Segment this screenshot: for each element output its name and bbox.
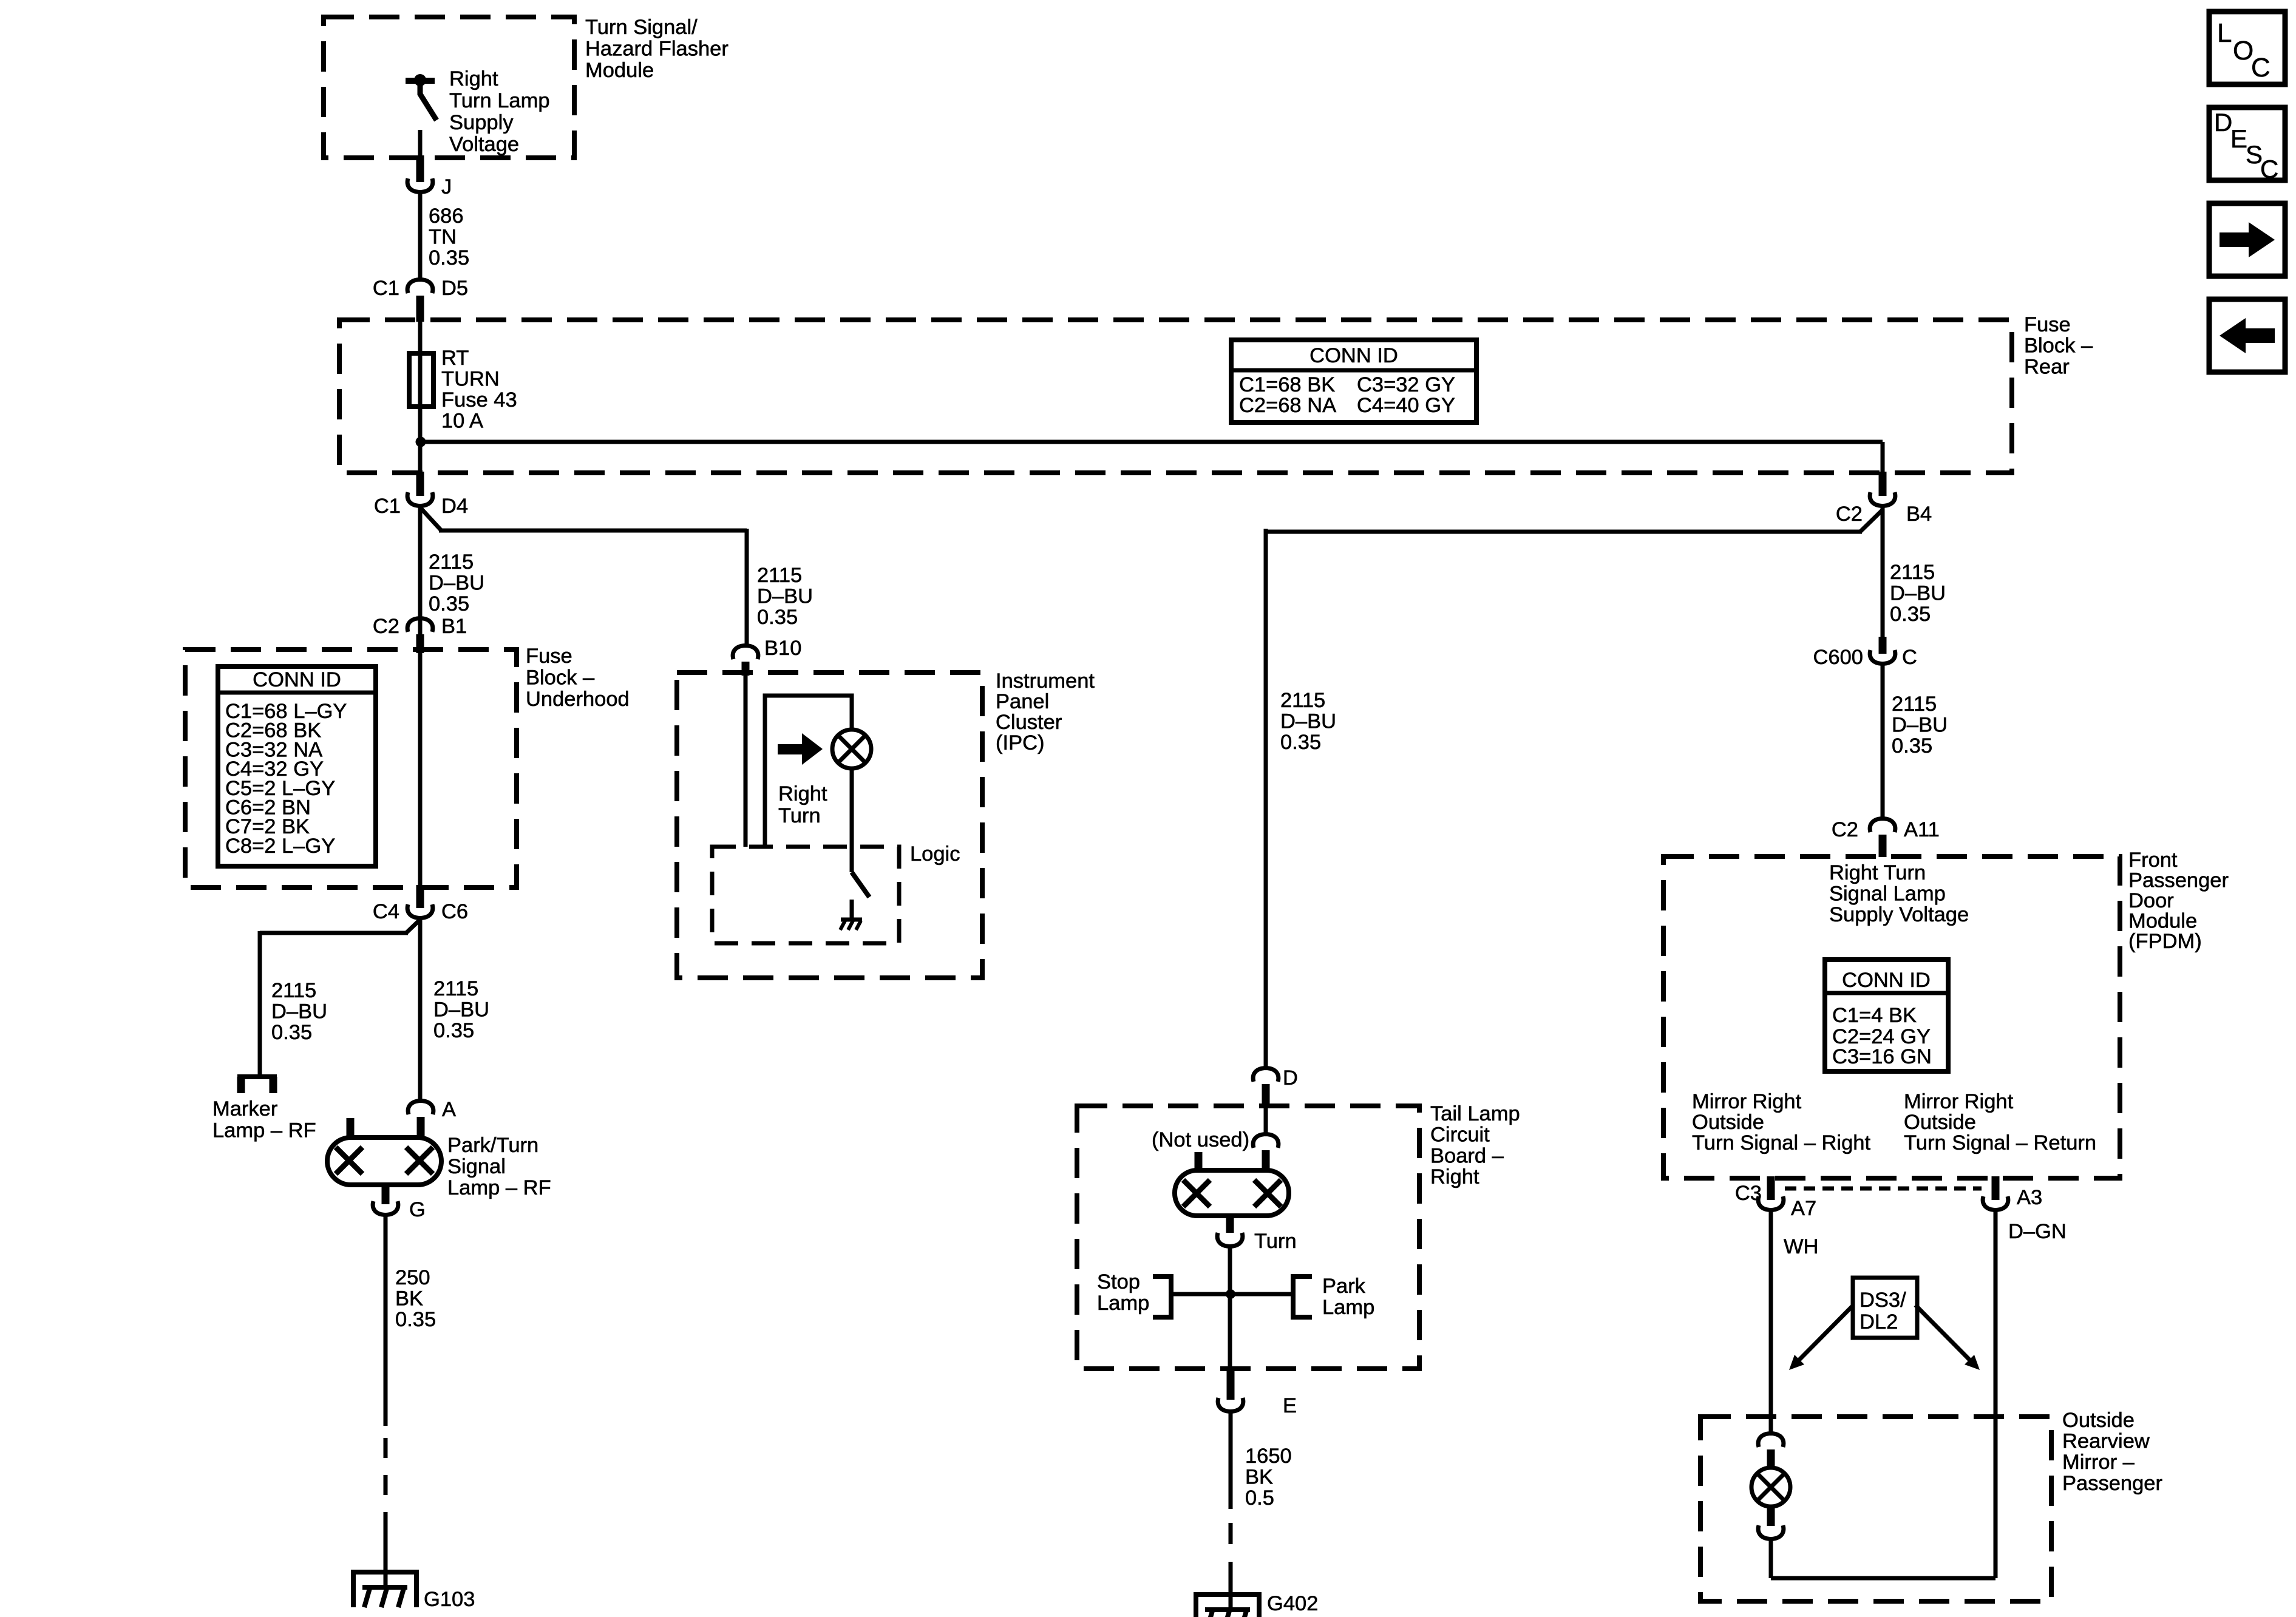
svg-text:C3: C3 (1735, 1182, 1762, 1205)
lamp Park/Turn Signal Lamp - RF (bulb housing) (327, 1137, 441, 1185)
connector tail bulb (cup) (1253, 1134, 1279, 1148)
switch Right Turn Lamp Supply Voltage (inside module) (406, 78, 435, 84)
svg-text:D–BU: D–BU (433, 998, 489, 1022)
lamp mirror turn signal (1751, 1468, 1790, 1507)
svg-text:Turn: Turn (778, 804, 821, 827)
svg-text:D–GN: D–GN (2008, 1220, 2067, 1243)
module Fuse Block - Rear (dashed box) (339, 320, 2012, 473)
connector C2/A11 (cup) (1870, 819, 1895, 833)
wire switch to pin J (418, 130, 423, 157)
lamp filament X left (1183, 1180, 1210, 1207)
svg-text:C3=16 GN: C3=16 GN (1832, 1045, 1932, 1068)
svg-text:J: J (441, 175, 452, 198)
connector pin D (stub) (1262, 1084, 1270, 1108)
terminal Park Lamp (bracket) (1293, 1276, 1312, 1317)
svg-text:WH: WH (1784, 1235, 1818, 1258)
wire junction down to C1/D4 (418, 442, 423, 472)
svg-text:Right Turn: Right Turn (1829, 861, 1926, 884)
svg-text:DS3/: DS3/ (1860, 1289, 1906, 1312)
svg-text:Hazard Flasher: Hazard Flasher (585, 38, 729, 61)
connector C2/B4 (cup) (1870, 492, 1895, 506)
lamp Right Turn indicator (832, 730, 871, 768)
svg-text:RT: RT (441, 347, 469, 370)
wire 1650 BK (to ground) (1229, 1583, 1233, 1611)
connector mirror inline bottom (cup) (1758, 1525, 1784, 1539)
svg-text:2115: 2115 (1892, 693, 1937, 716)
connector C600/C (stub) (1879, 637, 1887, 654)
connector pin G (stub = lamp bottom prong) (382, 1185, 390, 1204)
wire 250 BK (to ground) (384, 1532, 388, 1588)
svg-text:CONN ID: CONN ID (1842, 969, 1931, 992)
table CONN ID (Fuse Block - Rear) (1231, 340, 1476, 422)
wire D to bulb connector (1264, 1108, 1268, 1135)
svg-text:Outside: Outside (1692, 1111, 1764, 1134)
connector C2/A11 (stub) (1879, 835, 1887, 857)
svg-text:0.35: 0.35 (1890, 603, 1931, 626)
svg-text:0.35: 0.35 (429, 246, 469, 269)
svg-text:10 A: 10 A (441, 410, 483, 433)
svg-text:0.35: 0.35 (433, 1019, 474, 1042)
svg-text:Instrument: Instrument (996, 670, 1095, 693)
wire bus to right (to C2/B4) (420, 440, 1883, 444)
svg-text:Panel: Panel (996, 690, 1049, 713)
svg-text:C6: C6 (441, 900, 468, 923)
connector pin A (stub = lamp prong) (417, 1117, 425, 1137)
svg-text:C4=40 GY: C4=40 GY (1357, 394, 1455, 417)
svg-text:A: A (442, 1098, 456, 1121)
svg-text:Passenger: Passenger (2128, 869, 2229, 892)
wire 686 TN (J to C1/D5) (418, 192, 423, 280)
ground internal (IPC logic) (841, 918, 862, 922)
connector C1/D4 (stub) (416, 472, 424, 496)
svg-text:TURN: TURN (441, 368, 500, 391)
wire B4 branch diagonal (1860, 510, 1883, 532)
node junction (turn/stop/park) (1226, 1289, 1235, 1299)
lamp filament X right (406, 1147, 433, 1174)
svg-text:Right: Right (449, 67, 498, 90)
svg-text:Turn Signal/: Turn Signal/ (585, 16, 698, 39)
icon box LOC (2209, 12, 2285, 84)
svg-text:Supply: Supply (449, 111, 514, 134)
wire Turn to junction and board edge (1228, 1246, 1232, 1369)
svg-text:Board –: Board – (1430, 1144, 1504, 1167)
svg-text:Mirror Right: Mirror Right (1692, 1090, 1802, 1113)
svg-text:E: E (2230, 124, 2247, 153)
svg-text:Rearview: Rearview (2062, 1430, 2150, 1453)
svg-text:L: L (2217, 18, 2232, 48)
connector mirror inline top (stub) (1767, 1449, 1775, 1469)
svg-text:C2: C2 (1832, 818, 1858, 841)
svg-text:C1: C1 (373, 277, 399, 300)
svg-text:Stop: Stop (1097, 1270, 1140, 1293)
connector C4/C6 (stub) (416, 885, 424, 908)
svg-text:BK: BK (395, 1287, 423, 1310)
wire logic to indicator loop (765, 696, 852, 847)
wire 250 BK (dashed section) (384, 1438, 388, 1532)
svg-text:Mirror Right: Mirror Right (1904, 1090, 2014, 1113)
svg-text:C2: C2 (1836, 503, 1863, 526)
wire marker branch (horizontal) (260, 931, 408, 935)
wire B10 into logic (744, 676, 748, 847)
svg-text:Block –: Block – (2024, 334, 2093, 358)
svg-text:C2: C2 (373, 615, 399, 638)
svg-text:Right: Right (1430, 1165, 1479, 1188)
connector A3 (cup) (1983, 1196, 2008, 1210)
connector C3 boundary (dotted) (1785, 1187, 1982, 1191)
svg-text:BK: BK (1245, 1466, 1273, 1489)
svg-text:Passenger: Passenger (2062, 1472, 2162, 1495)
table CONN ID (Fuse Block - Underhood) (218, 666, 376, 866)
connector pin E (stub) (1227, 1369, 1235, 1400)
svg-text:Signal Lamp: Signal Lamp (1829, 883, 1946, 906)
terminal Stop Lamp (bracket) (1153, 1276, 1171, 1317)
module Turn Signal/Hazard Flasher Module (dashed box) (324, 17, 574, 158)
wire bus drop to tail lamp board (1264, 529, 1268, 1069)
connector C2/B1 (stub) (416, 634, 424, 653)
svg-text:686: 686 (429, 205, 464, 228)
wire branch D4 to IPC (diagonal) (420, 507, 441, 531)
svg-text:TN: TN (429, 226, 457, 249)
svg-text:Tail Lamp: Tail Lamp (1430, 1102, 1520, 1125)
wire D5 through fuse to junction (418, 320, 423, 442)
svg-text:A3: A3 (2017, 1186, 2042, 1209)
svg-text:D–BU: D–BU (1280, 710, 1336, 733)
connector C1/D4 (cup) (407, 492, 433, 506)
svg-text:B4: B4 (1906, 503, 1932, 526)
svg-text:(Not used): (Not used) (1152, 1128, 1249, 1151)
icon box DESC (2209, 107, 2285, 180)
svg-text:0.5: 0.5 (1245, 1486, 1274, 1510)
svg-text:Module: Module (2128, 910, 2197, 933)
svg-text:0.35: 0.35 (1892, 734, 1932, 758)
callout arrow to D-GN wire (1915, 1305, 1972, 1362)
module Outside Rearview Mirror - Passenger (dashed box) (1700, 1417, 2051, 1601)
lamp filament X right (1254, 1180, 1281, 1207)
svg-text:2115: 2115 (271, 979, 316, 1002)
svg-text:(IPC): (IPC) (996, 731, 1045, 754)
svg-text:D–BU: D–BU (1892, 714, 1948, 737)
wire C6 down to pin A (418, 918, 423, 1102)
icon box arrow right (2209, 203, 2285, 276)
connector Marker Lamp - RF (2-prong) (237, 1074, 277, 1079)
svg-text:C: C (1902, 646, 1917, 669)
svg-text:G103: G103 (424, 1588, 475, 1611)
svg-text:D–BU: D–BU (429, 572, 484, 595)
svg-text:D4: D4 (441, 495, 468, 518)
ground G103 (351, 1570, 419, 1575)
svg-text:Right: Right (778, 782, 827, 805)
wire mirror lamp return (bottom) (1771, 1576, 1995, 1581)
wire mirror lamp return (down) (1769, 1539, 1773, 1578)
connector pin D (cup) (1253, 1068, 1279, 1082)
svg-text:Turn: Turn (1254, 1230, 1297, 1253)
connector Turn (cup) (1217, 1233, 1243, 1247)
module Front Passenger Door Module (dashed box) (1663, 856, 2120, 1178)
svg-text:Voltage: Voltage (449, 133, 519, 156)
svg-text:G: G (409, 1198, 426, 1221)
svg-text:Turn Signal – Return: Turn Signal – Return (1904, 1131, 2096, 1154)
connector mirror inline top (cup) (1758, 1434, 1784, 1448)
connector pin A (cup) (408, 1101, 433, 1115)
svg-text:0.35: 0.35 (429, 592, 469, 615)
connector pin B10 (cup) (733, 646, 758, 660)
wire B4 branch horizontal (to tail lamp drop) (1266, 530, 1862, 534)
module Instrument Panel Cluster (dashed box) (677, 673, 982, 978)
svg-text:Rear: Rear (2024, 355, 2070, 378)
svg-text:C3=32 GY: C3=32 GY (1357, 373, 1455, 396)
svg-text:Lamp: Lamp (1322, 1296, 1374, 1319)
svg-text:2115: 2115 (757, 564, 802, 587)
svg-text:250: 250 (395, 1266, 430, 1289)
svg-text:Marker: Marker (212, 1097, 277, 1120)
wire switch to ground (850, 900, 854, 920)
svg-text:(FPDM): (FPDM) (2128, 930, 2202, 953)
connector pin E (cup) (1218, 1398, 1243, 1412)
wire branch D4 to IPC (horizontal) (439, 529, 747, 533)
svg-text:0.35: 0.35 (1280, 731, 1321, 754)
connector C3/A7 (stub) (1767, 1176, 1775, 1200)
connector C3/A7 (cup) (1758, 1196, 1784, 1210)
svg-text:Lamp: Lamp (1097, 1292, 1149, 1315)
svg-text:Fuse: Fuse (2024, 313, 2071, 336)
svg-text:Park/Turn: Park/Turn (447, 1134, 538, 1157)
lamp Park/Turn Signal Lamp - RF (left prong) (347, 1118, 355, 1139)
svg-text:Lamp – RF: Lamp – RF (447, 1176, 551, 1199)
svg-text:D–BU: D–BU (1890, 582, 1946, 605)
callout DS3/DL2 (box) (1853, 1278, 1917, 1338)
svg-text:Outside: Outside (2062, 1409, 2135, 1432)
wire D4 down to C2/B1 (418, 506, 423, 635)
svg-text:Cluster: Cluster (996, 711, 1062, 734)
svg-text:2115: 2115 (1280, 689, 1325, 712)
svg-text:Underhood: Underhood (526, 688, 630, 711)
svg-text:G402: G402 (1267, 1592, 1318, 1615)
svg-text:Block –: Block – (526, 666, 595, 690)
switch logic-driven (blade) (852, 872, 869, 897)
svg-text:Module: Module (585, 59, 654, 82)
connector C2/B4 (stub) (1879, 472, 1887, 496)
wire B4 down to C600 (1881, 506, 1885, 637)
svg-text:C8=2 L–GY: C8=2 L–GY (225, 835, 335, 858)
svg-text:B1: B1 (441, 615, 467, 638)
svg-text:E: E (1283, 1394, 1297, 1417)
svg-text:C: C (2251, 53, 2271, 83)
wire 250 BK (G down) (384, 1215, 388, 1426)
svg-text:Mirror –: Mirror – (2062, 1451, 2135, 1474)
icon box arrow left (2209, 299, 2285, 372)
svg-text:1650: 1650 (1245, 1445, 1292, 1468)
connector pin G (cup) (373, 1201, 398, 1215)
svg-text:Turn Signal – Right: Turn Signal – Right (1692, 1131, 1870, 1154)
fuse RT TURN Fuse 43 10A (409, 353, 433, 407)
svg-text:Door: Door (2128, 889, 2174, 912)
module Logic (dashed box) (712, 847, 899, 943)
wire D-GN (A3 down) (1994, 1210, 1998, 1578)
wire bus corner down to B4 (1881, 442, 1885, 472)
wire branch drop to B10 (745, 529, 749, 646)
lamp Tail/Stop (bulb housing) (1175, 1170, 1289, 1216)
svg-text:C1=4 BK: C1=4 BK (1832, 1004, 1917, 1027)
svg-text:Front: Front (2128, 849, 2178, 872)
svg-text:Circuit: Circuit (1430, 1124, 1490, 1147)
wire 1650 BK (E down) (1229, 1412, 1233, 1509)
wire WH (A7 down) (1769, 1210, 1773, 1434)
svg-text:Logic: Logic (910, 842, 960, 866)
svg-text:C4: C4 (373, 900, 399, 923)
connector tail bulb (stub = prong) (1262, 1150, 1270, 1170)
svg-text:D: D (2214, 108, 2232, 137)
svg-text:C: C (2260, 155, 2278, 183)
svg-text:Lamp – RF: Lamp – RF (212, 1119, 316, 1142)
svg-text:C1: C1 (374, 495, 401, 518)
connector A3 (stub) (1992, 1176, 2000, 1200)
svg-text:D–BU: D–BU (757, 585, 813, 608)
svg-text:D5: D5 (441, 277, 468, 300)
svg-text:Signal: Signal (447, 1155, 506, 1178)
svg-text:B10: B10 (764, 637, 801, 660)
callout arrow to WH wire (1797, 1305, 1853, 1362)
connector C1/D5 (cup) (407, 280, 433, 294)
wire C600 to A11 (1881, 663, 1885, 819)
svg-text:Fuse 43: Fuse 43 (441, 388, 517, 412)
svg-text:Fuse: Fuse (526, 645, 572, 668)
svg-text:D: D (1283, 1066, 1298, 1090)
svg-text:CONN ID: CONN ID (253, 668, 341, 691)
svg-text:2115: 2115 (433, 977, 478, 1000)
svg-text:0.35: 0.35 (271, 1021, 312, 1044)
node junction at fuse output (416, 437, 426, 447)
connector mirror inline bottom (stub) (1767, 1505, 1775, 1526)
module Fuse Block - Underhood (dashed box) (185, 649, 517, 887)
connector C1/D5 (stub) (416, 296, 424, 322)
connector C2/B1 (cup) (407, 619, 433, 632)
connector pin B10 (stub) (742, 662, 750, 676)
lamp tail (left prong, not used) (1195, 1152, 1203, 1170)
svg-text:A7: A7 (1791, 1197, 1816, 1220)
ground G402 (1194, 1592, 1262, 1597)
connector C600/C (cup) (1870, 650, 1895, 664)
wire indicator to switch (850, 768, 854, 872)
svg-text:A11: A11 (1904, 818, 1940, 841)
svg-text:CONN ID: CONN ID (1309, 344, 1398, 367)
lamp filament X left (336, 1147, 362, 1174)
svg-text:2115: 2115 (1890, 561, 1935, 584)
svg-text:C1=68 BK: C1=68 BK (1239, 373, 1335, 396)
module Tail Lamp Circuit Board - Right (dashed box) (1077, 1106, 1419, 1369)
wire to stop and park lamps (1172, 1292, 1292, 1297)
wire B1 to C6 inside box (418, 653, 423, 886)
svg-text:Outside: Outside (1904, 1111, 1976, 1134)
connector C4/C6 (cup) (407, 904, 433, 918)
wire 1650 BK (dashed section) (1229, 1523, 1233, 1583)
svg-text:0.35: 0.35 (757, 606, 798, 629)
wire marker branch (vertical) (258, 931, 262, 1075)
svg-text:0.35: 0.35 (395, 1308, 436, 1331)
wire C6 to marker branch (diagonal) (406, 920, 420, 933)
connector pin J (stub) (416, 155, 424, 182)
svg-text:Supply Voltage: Supply Voltage (1829, 903, 1969, 926)
svg-text:Park: Park (1322, 1275, 1366, 1298)
svg-text:2115: 2115 (429, 551, 474, 574)
connector pin J (cup) (407, 178, 433, 192)
connector Turn (stub = bottom prong) (1226, 1216, 1234, 1233)
svg-text:C2=68 NA: C2=68 NA (1239, 394, 1336, 417)
svg-text:DL2: DL2 (1860, 1310, 1898, 1334)
svg-text:Turn Lamp: Turn Lamp (449, 89, 550, 112)
svg-text:C600: C600 (1813, 646, 1863, 669)
table CONN ID (FPDM) (1825, 960, 1948, 1071)
icon right-turn arrow (778, 733, 823, 765)
svg-text:D–BU: D–BU (271, 1000, 327, 1023)
